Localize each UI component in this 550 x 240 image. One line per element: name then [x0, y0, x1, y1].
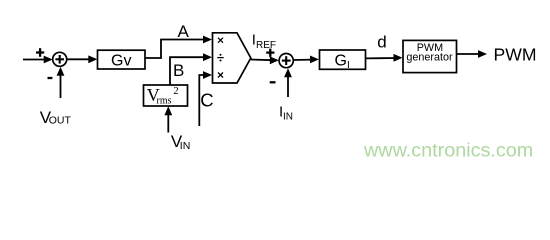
- divide symbol (middle) in U1: [217, 54, 223, 62]
- wire: PWM output: [457, 53, 481, 55]
- wire: S1 output to Gv: [67, 58, 91, 60]
- svg-text:REF: REF: [256, 40, 276, 51]
- svg-text:B: B: [173, 61, 184, 80]
- block Gv (voltage error amplifier): [98, 50, 146, 69]
- svg-text:IN: IN: [283, 111, 293, 122]
- summer S1: [53, 52, 67, 66]
- label: plus sign at S2 input: [266, 49, 274, 57]
- multiply symbol (top) in U1: [218, 38, 223, 43]
- label: plus sign at S1 input: [36, 48, 44, 57]
- wire: VIN arrow into Vrms^2 block: [167, 111, 169, 133]
- block GI (current error amplifier): [320, 50, 366, 69]
- svg-text:IN: IN: [180, 140, 191, 152]
- wire: IIN feedback arrow into S2: [287, 72, 289, 97]
- label: minus sign at S2 feedback: [270, 81, 276, 83]
- svg-text:d: d: [377, 32, 386, 51]
- svg-text:generator: generator: [406, 52, 453, 64]
- wire: Vrms^2 output up to multiplier input B: [170, 57, 206, 85]
- label IIN: [279, 104, 293, 123]
- svg-text:G: G: [335, 53, 347, 70]
- label: minus sign at S1 feedback: [48, 77, 53, 79]
- wire: VOUT feedback arrow into S1: [60, 70, 62, 98]
- wire: multiplier output IREF to summer S2: [251, 59, 272, 62]
- svg-text:rms: rms: [157, 96, 172, 107]
- label VOUT: [40, 108, 72, 127]
- net IREF label: [252, 32, 276, 52]
- multiplier/divider U1 body: [213, 33, 251, 83]
- svg-text:OUT: OUT: [49, 115, 72, 127]
- svg-text:Gv: Gv: [111, 52, 131, 69]
- svg-text:C: C: [200, 90, 213, 111]
- label VIN: [171, 132, 190, 152]
- block Vrms^2 (squarer): [144, 85, 188, 106]
- wire: GI output (duty d) to PWM generator: [366, 57, 397, 59]
- svg-text:A: A: [178, 22, 190, 41]
- wire: reference input into summer S1: [23, 59, 46, 61]
- svg-text:2: 2: [173, 85, 179, 97]
- multiply symbol (bottom) in U1: [218, 73, 223, 78]
- wire: S2 output to GI: [293, 59, 313, 61]
- wire: multiplier input C from below: [199, 75, 206, 126]
- wire: Gv output up to multiplier input A: [145, 40, 206, 59]
- svg-text:PWM: PWM: [494, 44, 537, 64]
- block PWM generator: [403, 40, 457, 72]
- svg-text:I: I: [347, 60, 350, 71]
- summer S2: [279, 54, 293, 68]
- svg-text:www.cntronics.com: www.cntronics.com: [363, 140, 533, 162]
